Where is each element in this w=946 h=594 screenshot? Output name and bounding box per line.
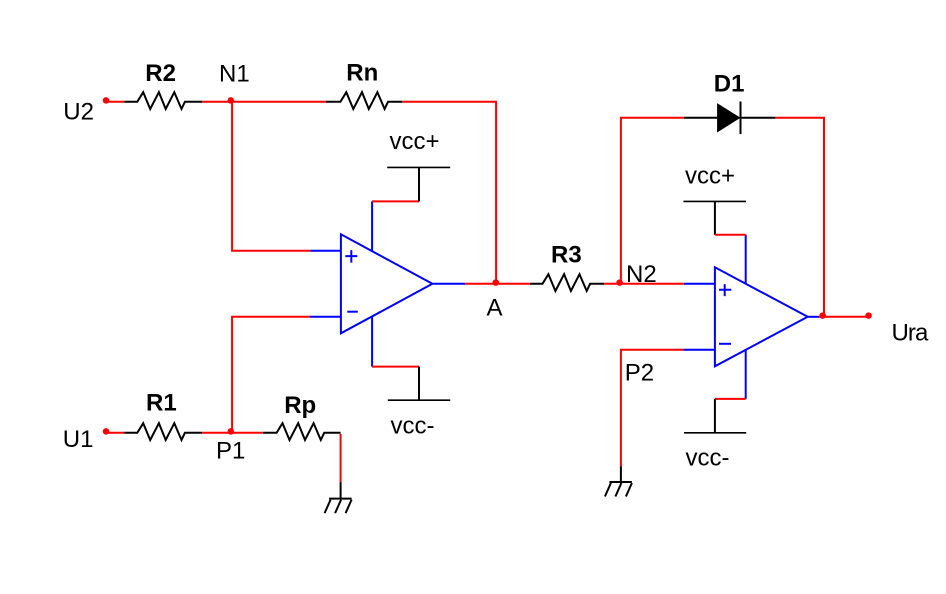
node N1 (228, 97, 235, 104)
resistor Rp (263, 423, 341, 440)
svg-text:P1: P1 (216, 438, 245, 465)
node P1 (228, 428, 235, 435)
wire - input of U2 (blue) (683, 349, 715, 351)
svg-text:U1: U1 (63, 426, 94, 453)
power vcc+ of U1: bar (387, 166, 450, 168)
wire R3 to op-amp U2 + input through N2 (604, 283, 684, 285)
wire P2 to op-amp U2 - input (621, 350, 684, 466)
node N2 (616, 279, 623, 286)
resistor R1 (124, 423, 202, 440)
wire Rp to ground (red) (340, 434, 342, 482)
svg-text:R1: R1 (146, 390, 177, 417)
node A (493, 279, 500, 286)
power vcc+ of U1: riser (418, 167, 420, 201)
wire + input (blue) (310, 250, 341, 252)
diode D1 left lead (684, 117, 717, 119)
resistor R2 (124, 92, 202, 109)
wire op-amp U1 output (blue) (432, 283, 465, 285)
diode D1 right lead (741, 117, 776, 119)
power vcc- of U2: riser (714, 399, 716, 433)
wire U1 to R1 (105, 432, 124, 434)
wire P2 ground stub (black) (620, 466, 622, 482)
svg-text:U2: U2 (63, 99, 94, 126)
wire R1 to Rp through P1 (202, 432, 263, 434)
ground below Rp (325, 499, 352, 513)
resistor Rn (326, 92, 402, 109)
power vcc- of U1: wire (372, 366, 419, 368)
power vcc+ of U2: wire (715, 234, 746, 236)
node output junction (819, 312, 826, 319)
power vcc+ of U2: bar (683, 200, 746, 202)
terminal U1 (103, 428, 110, 435)
power vcc- of U2: bar (684, 432, 746, 434)
resistor R3 (530, 274, 604, 291)
wire output to Ura terminal (819, 316, 869, 318)
wire D1 to output column (775, 118, 824, 317)
svg-text:R2: R2 (145, 60, 176, 87)
op-amp U1 (341, 234, 433, 333)
op-amp U1 minus sign (347, 311, 358, 313)
power vcc- of U1: riser (418, 367, 420, 401)
svg-text:vcc+: vcc+ (390, 128, 440, 155)
wire Rn to node A (402, 102, 496, 284)
op-amp U1 plus sign (345, 250, 357, 263)
svg-text:N1: N1 (219, 61, 250, 88)
svg-text:P2: P2 (625, 360, 654, 387)
wire output to R3 through A (465, 283, 530, 285)
power vcc- of U1: bar (388, 399, 450, 401)
wire - input (blue) (310, 316, 341, 318)
wire N1 to op-amp U1 + input (232, 102, 310, 251)
diode D1 (717, 103, 740, 132)
power vcc+ of U1: wire (372, 200, 419, 202)
wire op-amp U2 output (blue) (808, 316, 819, 318)
wire R2 to Rn through N1 (202, 101, 326, 103)
wire Rp ground stub (black) (340, 482, 342, 499)
power vcc+ of U2: riser (714, 201, 716, 234)
svg-text:vcc-: vcc- (686, 445, 730, 472)
wire U2 to R2 (105, 101, 124, 103)
terminal U2 (103, 97, 110, 104)
svg-text:Rp: Rp (284, 392, 316, 419)
wire N2 up to diode D1 (621, 118, 684, 284)
power vcc- of U2: wire (715, 398, 746, 400)
svg-text:R3: R3 (551, 242, 582, 269)
svg-text:Rn: Rn (346, 60, 378, 87)
op-amp U2 vcc+ pin (745, 235, 747, 285)
svg-text:Ura: Ura (892, 320, 930, 347)
op-amp U2 minus sign (719, 343, 731, 345)
ground below P2 (605, 482, 632, 497)
op-amp U1 vcc+ pin (371, 201, 373, 252)
op-amp U2 vcc- pin (745, 348, 747, 399)
op-amp U2 plus sign (719, 284, 731, 296)
svg-text:D1: D1 (714, 71, 745, 98)
svg-text:vcc+: vcc+ (685, 163, 735, 190)
op-amp U2 (715, 267, 808, 366)
wire + input of U2 (blue) (684, 283, 715, 285)
terminal Ura (865, 312, 872, 319)
op-amp U1 vcc- pin (371, 315, 373, 367)
svg-text:vcc-: vcc- (391, 413, 435, 440)
svg-text:A: A (487, 295, 503, 322)
svg-text:N2: N2 (626, 261, 657, 288)
wire P1 to op-amp U1 - input (232, 317, 310, 433)
diode D1 cathode bar (740, 102, 742, 135)
